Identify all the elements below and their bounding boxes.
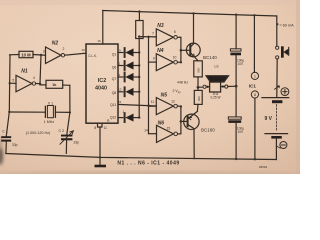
connector left [203, 85, 206, 88]
wire inverter output bus [180, 37, 182, 62]
paper background [0, 0, 300, 174]
wire crystal left [9, 111, 45, 113]
node N1 output junction [39, 83, 41, 85]
wire Q8 pin 13 [118, 91, 123, 93]
node link-diode-bus [138, 35, 140, 37]
wire Q7 pin 4 [118, 76, 123, 78]
IC1 supply wire [253, 15, 255, 72]
top supply rail [103, 11, 277, 17]
node crystal-left [8, 111, 10, 113]
transistor Q1 BC140 [186, 43, 200, 57]
morse key S1 [276, 46, 279, 49]
IC2 pins 8,11 to ground [98, 123, 103, 157]
node D1-bus [138, 51, 140, 53]
wire bus to N5 input [149, 105, 157, 107]
node ground-rail junction [99, 156, 101, 158]
ground symbol [99, 157, 101, 165]
capacitor C2 trimmer 33p [61, 135, 72, 137]
wire Q12 pin 1 [118, 117, 123, 119]
node A junction 10M/N2-in [40, 54, 42, 56]
wire diode-OR bus [138, 39, 140, 118]
node N4 out [180, 61, 182, 63]
transistor Q2 BC160 [184, 114, 199, 129]
loudspeaker LS [210, 82, 221, 92]
node speaker tap [197, 86, 200, 89]
wire IC2 pin16 to rail [102, 11, 104, 45]
diode D2 [124, 61, 126, 70]
wire node A to N1 output [40, 55, 41, 84]
wire N2 output to IC2 CLK pin 10 [65, 53, 86, 55]
inverter N2 [46, 47, 62, 64]
battery + terminal mark [281, 88, 289, 96]
IC2 4040 counter body [86, 44, 118, 123]
node D5-bus [138, 116, 140, 118]
wire speaker line [198, 86, 203, 88]
inverter N5 [156, 98, 173, 115]
capacitor C4 100u 10V [228, 117, 241, 119]
wire bus link to N3 input [139, 36, 156, 38]
wire Q6 pin 2 [118, 65, 123, 67]
resistor R4 330 [194, 61, 203, 77]
inverter N3 [156, 29, 173, 46]
diode D4 [124, 87, 126, 96]
node R3-rail [138, 10, 140, 12]
node collector-rail [192, 12, 194, 14]
wire Q1 pin 9 [118, 52, 123, 54]
resistor R1 10M [10, 54, 20, 56]
wire N1 out to R2 [36, 84, 46, 85]
bottom ground rail [6, 154, 277, 160]
battery BT1 9V [262, 97, 289, 99]
node base tap BC140 [180, 49, 183, 52]
node D4-bus [138, 91, 140, 93]
diode D3 [124, 73, 126, 82]
capacitor C3 100u 10V [235, 15, 237, 49]
node N5 out [180, 105, 182, 107]
wire bus to N6 input [149, 133, 157, 135]
node Q11-input-bus [147, 104, 149, 106]
wire Q11 pin 15 to inverter input bus [118, 104, 156, 106]
wire oscillator right branch [67, 85, 70, 134]
resistor R2 1k [46, 80, 63, 88]
wire to BC140 base [181, 49, 190, 51]
diode D5 [124, 113, 126, 122]
wire BC140 collector to rail [193, 13, 195, 43]
connector right [225, 85, 228, 88]
IC1 pin1 terminal [251, 72, 258, 79]
wire key feed [276, 16, 278, 46]
inverter N4 [156, 54, 173, 71]
current direction mark [275, 86, 280, 89]
battery - terminal mark [280, 142, 287, 149]
wire left vertical (N1 input net) [6, 55, 10, 136]
wire inverter input bus [148, 37, 150, 134]
wire bus to N4 input [149, 61, 157, 63]
node N1 input junction [9, 82, 11, 84]
diode D1 [124, 48, 126, 57]
crystal X1 1 MHz [44, 106, 46, 117]
node D2-bus [138, 64, 140, 66]
inverter N1 [10, 82, 16, 84]
capacitor C1 33p [1, 136, 11, 138]
node speaker-capacitor midpoint [235, 85, 238, 88]
IC1 pin8 terminal [251, 91, 258, 98]
resistor R3 pull-up [138, 12, 140, 21]
node D3-bus [138, 76, 140, 78]
node crystal-right [69, 111, 71, 113]
node base tap BC160 [180, 120, 183, 123]
node link-input-bus [147, 36, 149, 38]
resistor R5 330 [197, 87, 199, 90]
inverter N6 [157, 125, 174, 142]
